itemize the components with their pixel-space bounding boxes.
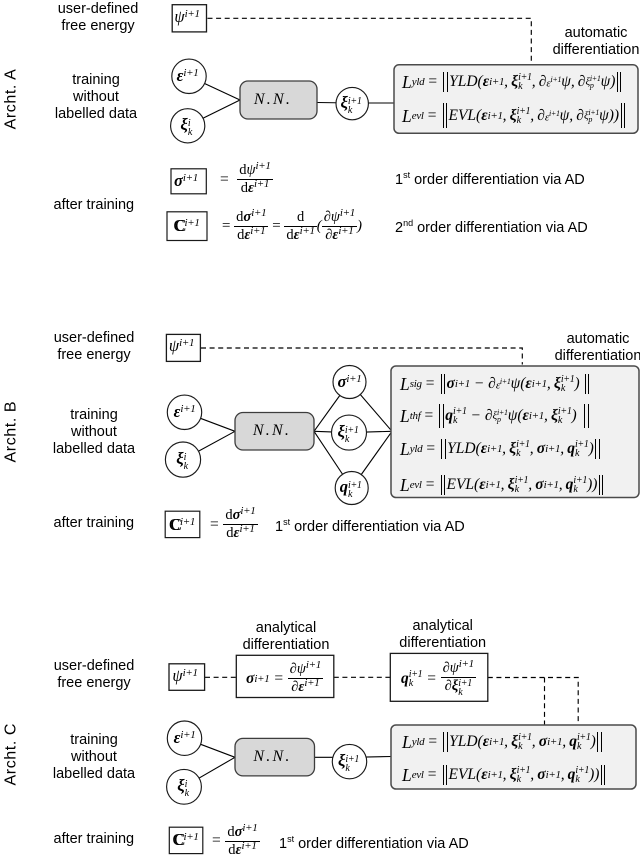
NN label B: [253, 422, 291, 440]
equation C=dsigma/deps A: [221, 212, 362, 241]
wire xik1-B to loss-B: [349, 431, 392, 432]
eps circle B: [167, 395, 201, 429]
psi box A: [172, 5, 206, 32]
wire NN-A to xik1-A: [317, 102, 352, 105]
label training without labelled data A: [36, 72, 156, 123]
psi symbol C: [172, 666, 197, 686]
xik circle C: [167, 769, 202, 804]
C symbol A: [173, 216, 199, 236]
eps node symbol A: [177, 66, 199, 86]
NN box A: [240, 81, 317, 119]
qk circle B: [335, 472, 368, 505]
wire eps-C to NN-C: [185, 738, 236, 757]
wire xik-B to NN-B: [183, 431, 235, 459]
sigma circle B: [333, 366, 366, 399]
psi symbol A: [174, 7, 199, 27]
xik circle B: [165, 442, 200, 477]
loss box A: [394, 65, 638, 134]
label user-defined free energy B: [34, 330, 154, 364]
label 1st order AD B: [275, 514, 465, 536]
C symbol B: [169, 515, 195, 535]
wire xik-C to NN-C: [184, 757, 235, 787]
label automatic differentiation B: [538, 331, 640, 365]
label 2nd order AD A: [395, 215, 588, 237]
label 1st order AD C: [279, 831, 469, 853]
dashed wire sigma branch down to loss-C: [544, 678, 546, 726]
xik1 circle C: [332, 744, 366, 778]
wire eps-B to NN-B: [185, 412, 236, 431]
loss yld equation B: [400, 437, 601, 461]
label user-defined free energy C: [34, 658, 154, 692]
loss evl equation C: [402, 763, 607, 787]
label analytical differentiation q C: [383, 618, 503, 652]
wire NN-B to xik1-B: [314, 431, 349, 432]
loss yld equation C: [402, 730, 603, 754]
label after training B: [54, 515, 135, 532]
sigma eq content C: [246, 662, 323, 695]
label 1st order AD A: [395, 167, 585, 189]
eps node symbol C: [174, 728, 196, 748]
label Archt. C: [3, 725, 21, 786]
wire eps-A to NN-A: [189, 76, 240, 100]
NN box C: [235, 738, 315, 776]
C symbol C: [172, 830, 198, 850]
wire NN-C to xik1-C: [314, 756, 352, 758]
loss box C: [391, 725, 636, 789]
qk node symbol B: [340, 477, 362, 499]
equation sigma=dpsi/deps A: [219, 165, 273, 194]
xik1 circle A: [336, 87, 368, 119]
dashed wire psi-B to loss-B: [201, 348, 522, 365]
loss evl equation A: [402, 104, 626, 128]
equation C=dsigma/deps B: [209, 510, 258, 539]
sigma node symbol B: [338, 372, 362, 392]
label Archt. A: [3, 69, 21, 130]
dashed wire psi-A to loss-A: [208, 18, 532, 64]
equation C=dsigma/deps C: [211, 827, 260, 856]
loss thf equation B: [400, 404, 590, 428]
loss box B: [391, 366, 639, 498]
eps circle C: [167, 721, 201, 755]
label user-defined free energy A: [38, 1, 158, 35]
C box C: [169, 827, 203, 853]
loss sig equation B: [400, 372, 591, 396]
sigma symbol A: [174, 171, 198, 191]
loss yld equation A: [402, 70, 623, 94]
C box B: [165, 511, 200, 537]
dashed wire sigmaeq-C to qeq-C: [334, 676, 391, 678]
xik1 circle B: [332, 415, 367, 450]
dashed wire qeq-C right: [488, 678, 578, 726]
wire xik1-A to loss-A: [352, 102, 394, 104]
xik circle A: [171, 109, 205, 143]
q eq content C: [401, 660, 476, 697]
wire xik-A to NN-A: [188, 100, 240, 126]
xik node symbol A: [180, 115, 192, 137]
xik node symbol C: [177, 776, 189, 798]
loss evl equation B: [400, 473, 605, 497]
psi box C: [169, 664, 205, 691]
wire NN-B to sigma-B: [314, 382, 350, 431]
xik1 node symbol C: [338, 751, 359, 773]
label automatic differentiation A: [536, 25, 640, 59]
xik1 node symbol A: [340, 93, 361, 115]
eps circle A: [172, 59, 206, 93]
NN label A: [254, 91, 292, 109]
label training without labelled data C: [34, 732, 154, 783]
NN label C: [253, 748, 291, 766]
C box A: [167, 212, 207, 241]
dashed wire psi-C to sigmaeq-C: [205, 676, 236, 678]
psi box B: [166, 334, 200, 361]
eps node symbol B: [174, 402, 196, 422]
wire NN-B to qk-B: [314, 431, 352, 488]
wire xik1-C to loss-C: [352, 756, 391, 759]
label Archt. B: [3, 402, 21, 463]
label analytical differentiation sigma C: [226, 620, 346, 654]
psi symbol B: [169, 336, 194, 356]
xik1 node symbol B: [337, 422, 358, 444]
xik node symbol B: [176, 449, 188, 471]
label after training A: [54, 197, 135, 214]
q eq box C: [390, 653, 488, 701]
label training without labelled data B: [34, 407, 154, 458]
wire qk-B to loss-B: [352, 431, 392, 488]
label after training C: [54, 831, 135, 848]
sigma eq box C: [236, 655, 333, 697]
wire sigma-B to loss-B: [350, 382, 393, 431]
NN box B: [235, 413, 314, 451]
sigma box A: [171, 169, 206, 194]
